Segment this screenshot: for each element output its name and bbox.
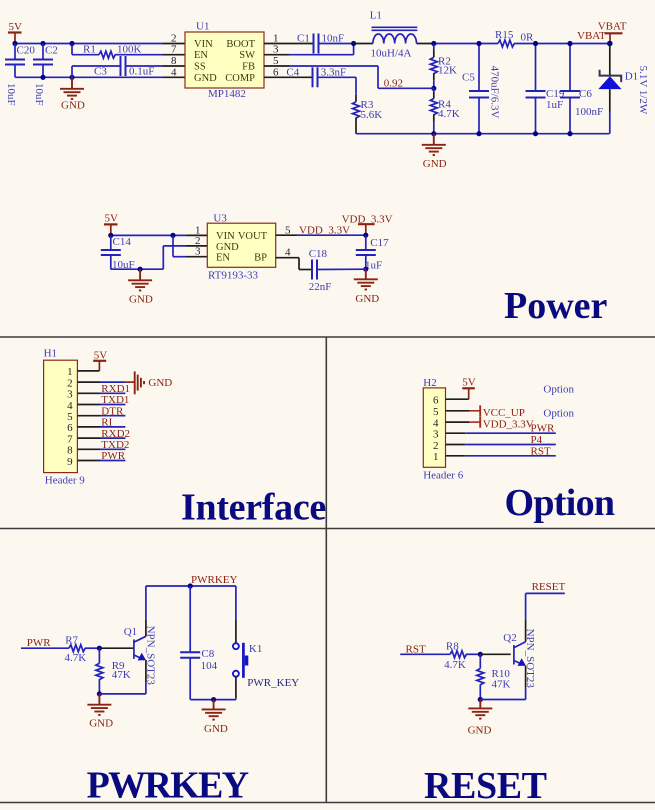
wire RST input: [400, 653, 450, 655]
capacitor C3: [72, 56, 185, 78]
ground GND header (power ground): [135, 371, 173, 394]
node at GND branch: [69, 75, 74, 80]
capacitor C4: [264, 66, 356, 87]
capacitor C8: [180, 586, 217, 700]
ground GND pwrkey left: [87, 694, 113, 730]
wire pin3 PWR: [446, 423, 556, 435]
wire FB from U1: [264, 66, 434, 88]
svg-text:R1: R1: [83, 44, 96, 56]
svg-text:PWRKEY: PWRKEY: [191, 574, 238, 586]
svg-text:Header 9: Header 9: [45, 475, 86, 487]
svg-text:5V: 5V: [462, 377, 476, 389]
svg-text:NPN_SOT23: NPN_SOT23: [144, 626, 156, 686]
INTERFACE-SECTION: [44, 348, 326, 529]
node C5 top: [476, 41, 481, 46]
svg-text:GND: GND: [148, 377, 172, 389]
node FB divider: [431, 86, 436, 91]
svg-text:0.1uF: 0.1uF: [129, 66, 154, 78]
svg-text:10uF: 10uF: [33, 83, 45, 106]
DIVIDERS: [0, 337, 655, 803]
node at 5V stem: [12, 41, 17, 46]
svg-text:GND: GND: [204, 723, 228, 735]
svg-text:10nF: 10nF: [322, 33, 345, 45]
wire pin2 P4: [446, 434, 556, 446]
ground GND power mid: [422, 134, 447, 170]
connector H2 Header 6: [423, 377, 464, 482]
svg-text:TXD1: TXD1: [101, 394, 129, 406]
capacitor C19: [526, 44, 565, 134]
wire pin2 to GND: [77, 381, 134, 383]
svg-text:12K: 12K: [438, 65, 457, 77]
node at C2 top: [40, 41, 45, 46]
bottom border: [0, 802, 655, 804]
OPTION-SECTION: [423, 377, 615, 525]
svg-text:GND: GND: [216, 242, 239, 253]
svg-text:VIN: VIN: [194, 39, 213, 50]
wire pin5 DTR: [77, 405, 125, 417]
svg-text:100K: 100K: [117, 44, 142, 56]
svg-text:1uF: 1uF: [546, 99, 563, 111]
power symbol 5V top-left: [8, 21, 22, 44]
svg-text:104: 104: [201, 660, 218, 672]
svg-text:GND: GND: [355, 293, 379, 305]
node VBAT: [607, 41, 613, 47]
svg-text:C2: C2: [45, 45, 58, 57]
U3-SECTION: [101, 213, 393, 306]
resistor R9: [96, 648, 131, 694]
svg-text:C14: C14: [113, 236, 132, 248]
capacitor C18: [309, 248, 366, 293]
capacitor C1: [264, 33, 354, 54]
resistor R3: [353, 77, 383, 133]
inductor L1: [370, 10, 418, 60]
svg-text:10uF: 10uF: [5, 83, 17, 106]
wire PWRKEY rail: [146, 585, 236, 587]
wire pin8 TXD2: [77, 439, 129, 451]
svg-text:BOOT: BOOT: [226, 39, 255, 50]
svg-text:R7: R7: [65, 635, 78, 647]
capacitor C17: [356, 235, 389, 272]
svg-text:PWR: PWR: [531, 423, 556, 435]
svg-text:GND: GND: [89, 717, 113, 729]
svg-text:2: 2: [67, 377, 73, 389]
svg-text:0.92: 0.92: [384, 78, 403, 90]
node SW: [351, 41, 356, 46]
node base: [97, 646, 102, 651]
svg-text:10uH/4A: 10uH/4A: [371, 48, 412, 60]
capacitor C5: [462, 44, 501, 134]
node VDD: [363, 233, 368, 238]
svg-text:2: 2: [171, 33, 177, 45]
svg-text:3: 3: [195, 246, 201, 258]
svg-text:8: 8: [67, 445, 73, 457]
svg-text:D1: D1: [625, 71, 638, 83]
svg-text:C8: C8: [201, 648, 214, 660]
resistor R15: [495, 29, 609, 47]
svg-text:EN: EN: [216, 253, 230, 264]
power symbol 5V LDO: [104, 213, 118, 236]
svg-text:RESET: RESET: [424, 765, 547, 807]
wire pin1 RST: [446, 445, 556, 457]
svg-text:Header 6: Header 6: [423, 469, 464, 481]
resistor R1: [72, 44, 185, 59]
svg-text:47K: 47K: [492, 679, 511, 691]
power symbol 5V option: [462, 377, 476, 400]
POWER-SECTION: [5, 10, 649, 328]
wire PWR input: [21, 647, 69, 649]
node at C2 bottom: [40, 75, 45, 80]
svg-text:L1: L1: [370, 10, 382, 22]
svg-text:1: 1: [433, 451, 439, 463]
svg-text:R15: R15: [495, 29, 514, 41]
wire VOUT to VDD node: [276, 234, 298, 236]
PWRKEY-SECTION: [21, 574, 299, 807]
ground GND left: [60, 77, 85, 111]
ground GND pwrkey right: [202, 700, 228, 735]
svg-text:TXD2: TXD2: [101, 439, 129, 451]
node emitter gnd reset: [478, 697, 483, 702]
svg-text:7: 7: [171, 44, 177, 56]
svg-text:EN: EN: [194, 50, 208, 61]
svg-text:GND: GND: [423, 158, 447, 170]
node C5 bottom: [476, 131, 481, 136]
svg-text:5.1V 1/2W: 5.1V 1/2W: [637, 66, 649, 115]
svg-text:5V: 5V: [9, 21, 23, 33]
svg-text:1: 1: [67, 366, 73, 378]
svg-text:Power: Power: [504, 285, 608, 327]
power symbol VBAT: [598, 21, 627, 44]
diode D1 zener: [598, 44, 649, 134]
svg-text:5V: 5V: [105, 213, 119, 225]
svg-text:RI: RI: [101, 417, 112, 429]
node base Q2: [478, 652, 483, 657]
svg-text:5V: 5V: [94, 349, 108, 361]
svg-text:RESET: RESET: [532, 581, 566, 593]
svg-text:VDD_3.3V: VDD_3.3V: [299, 224, 350, 236]
section divider horizontal 1: [0, 336, 655, 338]
resistor R8: [444, 640, 480, 671]
wire pin6 RI: [77, 417, 125, 429]
switch K1: [233, 586, 299, 700]
svg-text:R8: R8: [446, 640, 459, 652]
svg-text:U1: U1: [196, 21, 209, 33]
svg-text:Option: Option: [543, 384, 574, 396]
wire L1 to VBAT rail: [417, 43, 434, 45]
svg-text:100nF: 100nF: [575, 106, 603, 118]
wire C14 bottom to U3 GND: [111, 246, 208, 269]
wire node to L1: [354, 43, 373, 45]
wire pin3 RXD1: [77, 383, 130, 395]
svg-text:C17: C17: [370, 237, 389, 249]
wire base to Q1: [99, 647, 133, 649]
svg-text:C6: C6: [579, 88, 592, 100]
svg-text:COMP: COMP: [225, 73, 255, 84]
svg-text:VDD_3.3V: VDD_3.3V: [483, 418, 534, 430]
svg-text:PWRKEY: PWRKEY: [87, 764, 249, 806]
svg-text:RST: RST: [531, 445, 551, 457]
svg-text:SW: SW: [239, 50, 255, 61]
svg-text:4: 4: [171, 66, 177, 78]
node emitter gnd: [97, 691, 102, 696]
svg-text:MP1482: MP1482: [208, 88, 246, 100]
svg-text:8: 8: [171, 55, 177, 67]
svg-text:5: 5: [433, 406, 439, 418]
svg-text:PWR: PWR: [101, 450, 126, 462]
wire pin1 to 5V: [77, 370, 99, 372]
svg-text:47K: 47K: [112, 669, 131, 681]
node C19 bottom: [533, 131, 538, 136]
svg-text:22nF: 22nF: [309, 281, 332, 293]
resistor R2: [430, 44, 457, 89]
capacitor C14: [101, 235, 135, 271]
svg-text:7: 7: [67, 433, 73, 445]
ground GND LDO left: [128, 269, 153, 305]
wire pin9 PWR: [77, 450, 125, 462]
svg-text:RXD1: RXD1: [101, 383, 130, 395]
svg-text:470uF/6.3V: 470uF/6.3V: [489, 66, 501, 119]
svg-text:C20: C20: [17, 45, 36, 57]
wire pin4 VDD_3.3V: [446, 417, 534, 431]
svg-text:GND: GND: [61, 100, 85, 112]
op-amp U1 MP1482: [171, 21, 279, 101]
wire pin7 RXD2: [77, 428, 130, 440]
wire pin5 VCC_UP: [446, 405, 525, 419]
svg-text:5.6K: 5.6K: [361, 109, 383, 121]
wire RESET rail: [526, 592, 565, 594]
section divider horizontal 2: [0, 528, 655, 530]
node C8 top: [188, 583, 193, 588]
svg-text:SS: SS: [194, 62, 206, 73]
resistor R7: [65, 635, 100, 665]
svg-text:6: 6: [433, 395, 439, 407]
transistor Q2 NPN_SOT23: [503, 593, 536, 699]
svg-text:2: 2: [433, 440, 439, 452]
svg-text:4.7K: 4.7K: [65, 652, 87, 664]
svg-text:VIN: VIN: [216, 231, 235, 242]
svg-text:4.7K: 4.7K: [438, 108, 460, 120]
svg-text:DTR: DTR: [101, 405, 124, 417]
svg-text:H1: H1: [44, 348, 57, 360]
node C6 top: [567, 41, 572, 46]
svg-text:H2: H2: [423, 377, 436, 389]
node gnd pwrkey: [211, 697, 216, 702]
svg-text:BP: BP: [254, 253, 267, 264]
op-amp U3 RT9193-33: [195, 213, 291, 282]
wire SW to L1 node: [264, 44, 354, 55]
node C19 top: [533, 41, 538, 46]
node L1 out: [431, 41, 436, 46]
svg-text:4: 4: [67, 400, 73, 412]
RESET-SECTION: [400, 581, 565, 807]
wire bottom rail to U1 GND: [15, 76, 163, 78]
power symbol 5V header: [93, 349, 107, 371]
svg-text:Interface: Interface: [181, 487, 326, 529]
svg-text:NPN_SOT23: NPN_SOT23: [524, 629, 536, 689]
svg-text:9: 9: [67, 456, 73, 468]
svg-text:Option: Option: [543, 407, 574, 419]
svg-text:6: 6: [67, 422, 73, 434]
wire bottom rail power: [356, 133, 609, 135]
wire bottom rail pwrkey: [190, 699, 236, 701]
ground GND reset: [468, 700, 493, 737]
svg-text:C4: C4: [286, 66, 299, 78]
wire EN tie: [173, 235, 207, 256]
svg-text:PWR_KEY: PWR_KEY: [247, 677, 299, 689]
svg-text:VOUT: VOUT: [238, 231, 268, 242]
svg-text:3: 3: [433, 429, 439, 441]
node R4 bottom: [431, 131, 436, 136]
node GND C14: [138, 267, 143, 272]
svg-text:P4: P4: [531, 434, 543, 446]
connector H1 Header 9: [44, 348, 86, 487]
svg-text:5: 5: [67, 411, 73, 423]
capacitor C20: [5, 44, 35, 106]
node C17 bottom: [363, 267, 368, 272]
svg-text:Q1: Q1: [124, 626, 137, 638]
svg-text:VCC_UP: VCC_UP: [483, 407, 525, 419]
wire base to Q2: [480, 653, 510, 655]
wire emitter rail reset: [480, 699, 525, 701]
svg-text:C1: C1: [297, 33, 310, 45]
svg-text:4.7K: 4.7K: [444, 659, 466, 671]
power symbol VDD_3.3V: [342, 214, 393, 236]
transistor Q1 NPN_SOT23: [124, 586, 157, 694]
svg-text:Option: Option: [505, 482, 615, 524]
wire pin6 to 5V: [446, 398, 469, 400]
svg-text:C3: C3: [94, 66, 107, 78]
svg-text:U3: U3: [213, 213, 227, 225]
node at R1 branch: [69, 41, 74, 46]
svg-text:VBAT: VBAT: [598, 21, 627, 33]
svg-text:GND: GND: [194, 73, 217, 84]
svg-text:RT9193-33: RT9193-33: [208, 270, 259, 282]
svg-text:0R: 0R: [521, 32, 535, 44]
ground GND LDO right: [354, 269, 379, 305]
svg-text:3.3nF: 3.3nF: [321, 66, 346, 78]
capacitor C6: [560, 44, 603, 134]
capacitor C2: [33, 44, 58, 106]
svg-text:GND: GND: [468, 724, 492, 736]
wire BP to C18: [276, 258, 312, 270]
wire emitter rail: [99, 693, 145, 695]
svg-text:Q2: Q2: [503, 632, 516, 644]
section divider vertical: [325, 337, 327, 803]
node C6 bottom: [567, 131, 572, 136]
resistor R10: [477, 654, 511, 699]
wire pin4 TXD1: [77, 394, 129, 406]
node EN branch: [170, 233, 175, 238]
svg-text:FB: FB: [242, 62, 255, 73]
svg-text:C18: C18: [309, 248, 328, 260]
wire 5V to U3 VIN: [111, 234, 186, 236]
wire top rail 5V to U1 VIN: [15, 43, 163, 45]
svg-text:GND: GND: [129, 294, 153, 306]
node C14 top: [108, 233, 113, 238]
svg-text:3: 3: [67, 389, 73, 401]
resistor R4: [430, 88, 459, 133]
svg-text:RXD2: RXD2: [101, 428, 130, 440]
svg-text:C5: C5: [462, 72, 475, 84]
svg-text:K1: K1: [249, 643, 262, 655]
